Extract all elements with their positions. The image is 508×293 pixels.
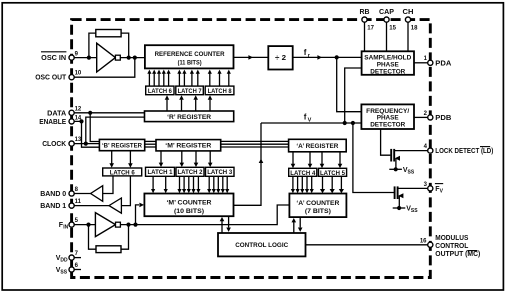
wire: control logic to M counter (up) [220, 217, 225, 233]
svg-text:ENABLE: ENABLE [39, 119, 66, 126]
node: resistor tap junction [127, 56, 131, 60]
ground VSS (Q1 source) [389, 167, 415, 176]
svg-text:DETECTOR: DETECTOR [370, 121, 405, 128]
IC boundary (dashed) [72, 20, 431, 278]
wire: DATA to R register [74, 112, 145, 114]
wire: RB pin into sample/hold detector [364, 22, 366, 52]
svg-text:PDB: PDB [435, 115, 451, 122]
wire: latch to BAND 0 buffer [103, 176, 113, 194]
block: 'M' REGISTER [156, 140, 221, 151]
node: FIN input junction [86, 223, 90, 227]
svg-text:17: 17 [367, 25, 374, 31]
wires: latches 1-3 into M counter [151, 176, 229, 193]
wires: latches 6-8 into reference counter [147, 70, 231, 87]
node: fv junction to sample/hold [343, 121, 347, 125]
transistor Q1 (lock detect, open drain) [391, 149, 428, 169]
latch: LATCH 6 (reference) [146, 86, 174, 95]
svg-text:LATCH 3: LATCH 3 [207, 169, 233, 176]
block: 'B' REGISTER [99, 139, 144, 150]
pin DATA (12) [69, 110, 74, 115]
wire: branch up into M counter [136, 205, 140, 225]
inverter output bubble [115, 55, 120, 60]
wire: fr branch down to frequency/phase detector [337, 57, 362, 111]
wire: sample/hold output to PDA [414, 62, 428, 64]
svg-text:REFERENCE COUNTER: REFERENCE COUNTER [155, 51, 225, 58]
svg-text:LATCH 8: LATCH 8 [208, 88, 233, 95]
svg-text:CONTROL: CONTROL [435, 243, 469, 250]
svg-text:LATCH 2: LATCH 2 [178, 169, 204, 176]
svg-text:(10 BITS): (10 BITS) [174, 208, 204, 215]
resistor R (oscillator feedback) [96, 30, 121, 37]
svg-text:DATA: DATA [47, 110, 66, 117]
svg-text:RB: RB [360, 9, 370, 16]
wire: feedback left leg [89, 33, 96, 58]
svg-text:2: 2 [424, 111, 428, 117]
svg-text:SS: SS [408, 169, 415, 175]
pin ENABLE (14) [69, 119, 74, 124]
ground VSS (Q2 source) [393, 206, 419, 215]
pin BAND 1 (11) [69, 203, 74, 208]
svg-text:CLOCK: CLOCK [42, 141, 66, 148]
svg-text:18: 18 [411, 25, 418, 31]
svg-text:LOCK DETECT (LD): LOCK DETECT (LD) [435, 148, 493, 155]
svg-text:1: 1 [424, 56, 428, 62]
latch: LATCH 2 [176, 167, 204, 176]
svg-text:LATCH 1: LATCH 1 [148, 169, 174, 176]
pin VSS (6) [69, 267, 74, 272]
svg-text:OSC IN: OSC IN [41, 55, 66, 62]
wire: M counter to control logic (down) [226, 216, 231, 232]
svg-text:BAND 0: BAND 0 [40, 191, 66, 198]
svg-text:13: 13 [75, 137, 82, 143]
block: 'A' REGISTER [289, 139, 347, 152]
svg-text:‘M’ COUNTER: ‘M’ COUNTER [167, 199, 212, 206]
wires: R register load to latches 6-8 [165, 95, 213, 111]
arrow: into M counter [139, 203, 144, 208]
wire: freq/phase detector to Q1 gate [381, 129, 391, 155]
svg-text:12: 12 [75, 106, 82, 112]
svg-text:11: 11 [75, 199, 82, 205]
wire: OSC IN pin to inverter input [74, 57, 97, 59]
resistor R (FIN feedback) [96, 246, 121, 253]
node: DATA junction [88, 111, 92, 115]
pin CAP (15) [384, 17, 389, 22]
wires: B register to band latch 6 [109, 151, 132, 168]
svg-text:14: 14 [75, 116, 82, 122]
wire: buffer to BAND 0 pin [74, 193, 91, 195]
wire: latch to BAND 1 buffer [121, 176, 130, 206]
svg-text:‘R’ REGISTER: ‘R’ REGISTER [167, 114, 211, 121]
wire: feedback left leg [89, 225, 97, 250]
node: CLOCK junction [84, 142, 88, 146]
node: M counter branch junction [133, 223, 137, 227]
wire: A counter to control logic (down) [298, 217, 303, 232]
block: REFERENCE COUNTER (11 BITS) [145, 45, 234, 68]
latch: LATCH 5 [319, 168, 347, 176]
svg-text:5: 5 [75, 218, 79, 224]
svg-text:r: r [308, 53, 311, 59]
wire: control logic to A counter (up) [292, 218, 297, 233]
wire: fr to sample/hold phase detector [293, 56, 362, 58]
node: ENABLE corner junction [79, 119, 83, 123]
pin RB (17) [362, 17, 367, 22]
svg-text:3: 3 [424, 182, 428, 188]
wire: CLOCK to B register [74, 143, 100, 145]
svg-text:7: 7 [75, 251, 79, 257]
svg-text:9: 9 [75, 51, 79, 57]
wires: latches 4-5 into A counter [291, 176, 344, 193]
svg-text:f: f [304, 48, 307, 57]
pin VDD (7) [69, 255, 74, 260]
svg-text:OUTPUT (MC): OUTPUT (MC) [435, 251, 480, 258]
wire: buffer to BAND 1 pin [74, 205, 110, 207]
svg-text:6: 6 [75, 263, 79, 269]
arrow: signal direction into divide-by-2 [248, 55, 253, 60]
wire: ENABLE down to B register [74, 121, 100, 147]
svg-text:‘B’ REGISTER: ‘B’ REGISTER [102, 143, 142, 150]
svg-text:CAP: CAP [379, 9, 394, 16]
block: SAMPLE/HOLD PHASE DETECTOR [362, 51, 414, 75]
wire: feedback right leg [121, 33, 129, 58]
pin BAND 0 (8) [69, 191, 74, 196]
svg-text:16: 16 [420, 238, 427, 244]
svg-text:4: 4 [424, 144, 428, 150]
svg-text:MODULUS: MODULUS [435, 235, 468, 242]
latch: LATCH 4 [289, 168, 317, 176]
wire: OSC OUT branch [74, 58, 135, 78]
svg-text:V: V [308, 117, 312, 123]
wire: reference counter to divide-by-2 [234, 56, 269, 58]
svg-text:LATCH 6: LATCH 6 [110, 170, 136, 177]
buffer: BAND 0 driver [91, 186, 103, 202]
svg-text:LATCH 6: LATCH 6 [148, 88, 173, 95]
block: CONTROL LOGIC [218, 233, 306, 256]
wires: B to M register chain [145, 141, 156, 147]
wire: fv horizontal to frequency/phase detector [261, 122, 361, 124]
svg-text:LATCH 5: LATCH 5 [320, 170, 346, 177]
latch: LATCH 6 (band select) [103, 168, 142, 176]
svg-text:‘A’ COUNTER: ‘A’ COUNTER [296, 200, 339, 207]
svg-text:CONTROL LOGIC: CONTROL LOGIC [235, 242, 288, 249]
svg-text:SS: SS [60, 270, 67, 276]
latch: LATCH 1 [146, 167, 175, 176]
block: FREQUENCY/PHASE DETECTOR [361, 104, 414, 129]
wires: M to A register chain [221, 141, 289, 147]
svg-text:DD: DD [60, 258, 68, 264]
overline on LD [480, 146, 490, 148]
op-amp: FIN input amplifier [95, 213, 115, 237]
pin CH (18) [405, 17, 410, 22]
buffer: BAND 1 driver [109, 198, 121, 213]
node fr junction [335, 55, 339, 59]
latch: LATCH 8 [205, 86, 234, 95]
wire: CH pin into sample/hold detector [407, 22, 409, 52]
wire: detector output to PDB [414, 116, 428, 118]
svg-text:DETECTOR: DETECTOR [370, 68, 405, 75]
node: fv junction to Fv output [351, 121, 355, 125]
wire: control logic to modulus control pin [306, 244, 428, 246]
pin CLOCK (13) [69, 141, 74, 146]
pin FIN (5) [69, 222, 74, 227]
amp output bubble [116, 222, 121, 227]
latch: LATCH 3 [206, 167, 235, 176]
wire: DATA branch down to B register [90, 113, 99, 142]
svg-text:‘A’ REGISTER: ‘A’ REGISTER [296, 143, 338, 150]
wire: CAP pin into sample/hold detector [386, 22, 388, 52]
node: feedback tap junction [126, 223, 130, 227]
svg-text:LATCH 7: LATCH 7 [178, 88, 203, 95]
svg-text:÷ 2: ÷ 2 [275, 55, 286, 62]
latch: LATCH 7 [176, 86, 204, 95]
arrow: fr direction [317, 55, 322, 60]
op-amp: oscillator inverter [97, 43, 116, 72]
svg-text:IN: IN [63, 225, 68, 231]
pin OSC IN (9) [69, 55, 74, 60]
wire: fv branch up into sample/hold detector [345, 68, 362, 123]
svg-text:(7 BITS): (7 BITS) [305, 208, 331, 215]
wire: inverter output to reference counter [120, 57, 145, 59]
svg-text:LATCH 4: LATCH 4 [290, 170, 316, 177]
wire: feedback right leg [121, 225, 129, 250]
pin OSC OUT (10) [69, 75, 74, 80]
wire: FIN pin to input amp [74, 224, 96, 226]
svg-text:BAND 1: BAND 1 [40, 203, 66, 210]
wire: fv branch down to Fv transistor gate [353, 123, 394, 193]
svg-text:CH: CH [403, 9, 414, 16]
svg-text:f: f [304, 112, 307, 121]
overline on MC [467, 250, 477, 252]
svg-text:PDA: PDA [435, 60, 451, 67]
transistor Q2 (Fv, open drain) [395, 186, 428, 208]
wires: M register load to latches 1-3 [159, 151, 213, 167]
svg-text:V: V [440, 188, 444, 194]
wire: amp output to A counter branch [120, 205, 289, 225]
svg-text:10: 10 [75, 71, 82, 77]
svg-text:SS: SS [411, 208, 418, 214]
block: 'R' REGISTER [145, 111, 234, 122]
block: 'M' COUNTER (10 BITS) [144, 194, 233, 217]
block: 'A' COUNTER (7 BITS) [289, 194, 346, 218]
block: divide-by-2 [268, 46, 292, 69]
arrow: fv direction up [259, 159, 264, 163]
wire: CLOCK branch to R register [86, 117, 145, 144]
wire: fv from M counter output riser [234, 123, 262, 205]
node: OSC OUT branch junction [133, 56, 137, 60]
svg-text:‘M’ REGISTER: ‘M’ REGISTER [165, 143, 211, 150]
svg-text:8: 8 [75, 187, 79, 193]
svg-text:OSC OUT: OSC OUT [35, 75, 67, 82]
node: oscillator input junction [87, 56, 91, 60]
svg-text:(11 BITS): (11 BITS) [178, 59, 202, 66]
svg-text:15: 15 [389, 25, 396, 31]
wires: A register load to latches 4-5 [291, 152, 343, 168]
